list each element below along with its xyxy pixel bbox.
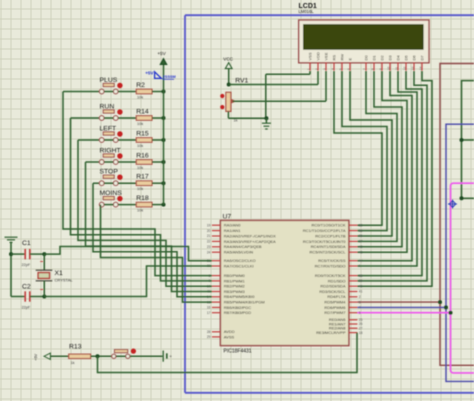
- svg-text:20: 20: [207, 229, 211, 233]
- svg-text:D4: D4: [396, 55, 401, 61]
- svg-text:RC1/T1OSI/CCP2/FLTA: RC1/T1OSI/CCP2/FLTA: [303, 228, 346, 233]
- svg-text:STOP: STOP: [100, 169, 119, 176]
- svg-text:D2: D2: [380, 55, 385, 61]
- svg-text:VSS: VSS: [308, 52, 313, 60]
- svg-text:37: 37: [359, 240, 363, 244]
- svg-text:R14: R14: [136, 108, 149, 115]
- svg-text:CRYSTAL: CRYSTAL: [55, 277, 74, 282]
- svg-text:1k: 1k: [234, 119, 238, 123]
- svg-text:35: 35: [359, 229, 363, 233]
- svg-text:43: 43: [359, 250, 363, 254]
- svg-text:14: 14: [418, 66, 422, 70]
- svg-text:10: 10: [386, 66, 390, 70]
- svg-text:R18: R18: [136, 195, 149, 202]
- svg-text:32: 32: [359, 223, 363, 227]
- svg-text:RD0/T0CK/T5CK: RD0/T0CK/T5CK: [315, 273, 346, 278]
- svg-text:E: E: [348, 58, 353, 61]
- svg-text:38: 38: [359, 274, 363, 278]
- svg-text:RB0/PWM0: RB0/PWM0: [224, 273, 246, 278]
- svg-text:RC4/INT1/SDI/SDA: RC4/INT1/SDI/SDA: [311, 244, 346, 249]
- svg-text:C2: C2: [22, 283, 31, 290]
- svg-text:24: 24: [207, 250, 211, 254]
- svg-text:13: 13: [410, 66, 414, 70]
- svg-text:X1: X1: [55, 270, 64, 277]
- svg-text:10k: 10k: [137, 95, 143, 99]
- svg-text:42: 42: [359, 245, 363, 249]
- svg-text:RE3/MCLR/VPP: RE3/MCLR/VPP: [316, 330, 346, 335]
- svg-text:10k: 10k: [137, 209, 143, 213]
- svg-text:RB4/PWM5/KBI0: RB4/PWM5/KBI0: [224, 294, 255, 299]
- svg-text:RD1/SDO: RD1/SDO: [328, 278, 346, 283]
- svg-text:RC5/INT2/SCK/SCL: RC5/INT2/SCK/SCL: [309, 250, 346, 255]
- svg-text:RB7/KBI3/PGD: RB7/KBI3/PGD: [224, 310, 251, 315]
- svg-text:RA2/AN2/VREF-/CAP1/INDX: RA2/AN2/VREF-/CAP1/INDX: [224, 233, 276, 238]
- svg-text:18: 18: [359, 331, 363, 335]
- svg-text:AVSS: AVSS: [224, 334, 235, 339]
- svg-text:40: 40: [359, 284, 363, 288]
- svg-text:C1: C1: [22, 240, 31, 247]
- svg-text:+5V: +5V: [157, 51, 166, 56]
- svg-text:27: 27: [359, 326, 363, 330]
- svg-text:RIGHT: RIGHT: [100, 147, 121, 154]
- svg-text:1k: 1k: [71, 361, 75, 365]
- svg-text:1: 1: [359, 264, 361, 268]
- svg-text:4: 4: [359, 306, 361, 310]
- svg-text:RC7/RX/TD/SDO: RC7/RX/TD/SDO: [315, 263, 346, 268]
- svg-text:MOINS: MOINS: [100, 190, 123, 197]
- svg-text:RD4/FLTA: RD4/FLTA: [327, 294, 346, 299]
- svg-text:PLUS: PLUS: [100, 77, 118, 84]
- svg-text:RB2/PWM2: RB2/PWM2: [224, 284, 246, 289]
- svg-text:R2: R2: [136, 82, 145, 89]
- svg-text:LEFT: LEFT: [100, 125, 117, 132]
- svg-text:2: 2: [359, 295, 361, 299]
- svg-text:D5: D5: [404, 55, 409, 61]
- svg-text:39: 39: [359, 279, 363, 283]
- svg-text:RA6/OSC2/CLKO: RA6/OSC2/CLKO: [224, 258, 256, 263]
- svg-text:10k: 10k: [137, 187, 143, 191]
- svg-text:U7: U7: [223, 214, 232, 221]
- svg-text:RD5/PWM4: RD5/PWM4: [324, 300, 346, 305]
- svg-text:22pF: 22pF: [22, 306, 31, 310]
- svg-text:RB3/PWM3: RB3/PWM3: [224, 289, 246, 294]
- svg-text:11: 11: [394, 67, 398, 70]
- svg-text:RC3/T0CK/T5CLK/INT0: RC3/T0CK/T5CLK/INT0: [303, 239, 346, 244]
- svg-text:RB6/KBI2/PGC: RB6/KBI2/PGC: [224, 305, 251, 310]
- svg-text:VCC: VCC: [223, 57, 233, 62]
- svg-text:+: +: [169, 354, 172, 359]
- svg-text:D3: D3: [388, 55, 393, 61]
- svg-text:RA3/AN3/VREF+/CAP2/QEA: RA3/AN3/VREF+/CAP2/QEA: [224, 239, 276, 244]
- svg-text:LM016L: LM016L: [299, 9, 315, 14]
- svg-text:28: 28: [207, 330, 211, 334]
- svg-text:R13: R13: [69, 344, 82, 351]
- svg-text:R17: R17: [136, 174, 149, 181]
- svg-text:RUN: RUN: [100, 103, 115, 110]
- svg-text:22: 22: [207, 240, 211, 244]
- svg-text:RD3/SCK/SCL: RD3/SCK/SCL: [319, 289, 346, 294]
- svg-text:VEE: VEE: [324, 52, 329, 60]
- svg-text:RA0/AN0: RA0/AN0: [224, 223, 241, 228]
- svg-text:41: 41: [359, 290, 363, 294]
- svg-text:RS: RS: [332, 55, 337, 61]
- svg-text:R15: R15: [136, 130, 149, 137]
- svg-text:RD2/SDI/SDA: RD2/SDI/SDA: [320, 284, 345, 289]
- svg-text:17: 17: [207, 311, 211, 315]
- svg-text:VDD: VDD: [316, 52, 321, 61]
- svg-text:10k: 10k: [137, 144, 143, 148]
- svg-text:3: 3: [359, 300, 361, 304]
- svg-text:D1: D1: [372, 55, 377, 61]
- svg-text:RA7/OSC1/CLKI: RA7/OSC1/CLKI: [224, 263, 254, 268]
- svg-text:RC0/T1OSO/T1CK: RC0/T1OSO/T1CK: [311, 223, 345, 228]
- svg-text:36: 36: [359, 234, 363, 238]
- svg-text:RB1/PWM1: RB1/PWM1: [224, 278, 246, 283]
- svg-text:44: 44: [359, 259, 363, 263]
- svg-text:RW: RW: [340, 54, 345, 61]
- svg-text:PIC18F4431: PIC18F4431: [224, 349, 252, 355]
- svg-text:RV1: RV1: [235, 78, 248, 85]
- svg-text:RB5/PWM4/KBI1/PGM: RB5/PWM4/KBI1/PGM: [224, 300, 265, 305]
- svg-text:D0: D0: [364, 55, 369, 61]
- svg-text:5: 5: [359, 311, 361, 315]
- svg-text:RA1/AN1: RA1/AN1: [224, 228, 241, 233]
- svg-text:RD7/PWM7: RD7/PWM7: [324, 310, 346, 315]
- svg-text:D6: D6: [412, 55, 417, 61]
- svg-text:R16: R16: [136, 152, 149, 159]
- svg-text:RC6/TX/CK/SS: RC6/TX/CK/SS: [318, 258, 346, 263]
- svg-text:RA4/AN4/CAP3/QEB: RA4/AN4/CAP3/QEB: [224, 244, 262, 249]
- svg-text:RC2/CCP1/FLTB: RC2/CCP1/FLTB: [315, 233, 346, 238]
- svg-text:19: 19: [207, 223, 211, 227]
- svg-text:10k: 10k: [137, 122, 143, 126]
- svg-text:+5V: +5V: [145, 71, 154, 76]
- svg-text:21: 21: [207, 234, 211, 238]
- svg-text:+5V: +5V: [34, 353, 38, 360]
- svg-text:RD6/PWM6: RD6/PWM6: [324, 305, 346, 310]
- svg-text:22pF: 22pF: [22, 263, 31, 267]
- svg-text:12: 12: [402, 66, 406, 70]
- svg-text:2SSSM: 2SSSM: [163, 75, 176, 79]
- svg-text:10k: 10k: [137, 166, 143, 170]
- svg-text:16: 16: [207, 306, 211, 310]
- svg-text:D7: D7: [420, 55, 425, 61]
- svg-text:RA5/AN5/LVDIN: RA5/AN5/LVDIN: [224, 250, 253, 255]
- svg-text:29: 29: [207, 335, 211, 339]
- svg-text:23: 23: [207, 245, 211, 249]
